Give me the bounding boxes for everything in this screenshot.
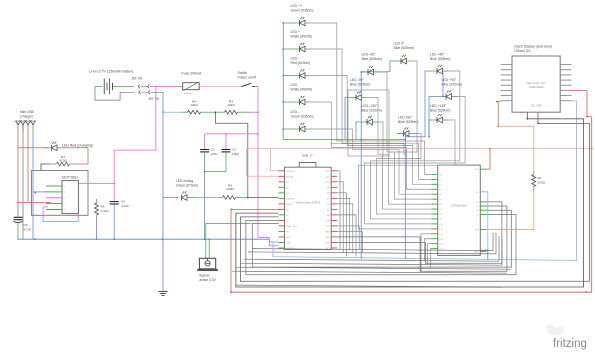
wire U1 right pin 5 down [337,198,349,249]
svg-text:USB “C”: USB “C” [302,154,314,158]
node blue -45 [360,71,362,73]
wire LED D2 to R5 [196,197,223,199]
wire USB pin3 red down [27,132,29,203]
wire OLED vcc [497,102,499,127]
wire R3 to VBATT [251,111,258,113]
wire D3 to mux C0 [310,23,432,174]
svg-text:R6: R6 [101,205,105,209]
svg-text:Blue (525nm): Blue (525nm) [362,57,382,61]
LED D8 0° [395,55,413,64]
svg-text:LED messg: LED messg [176,179,193,183]
label C2 [232,148,239,157]
node battery+ split [155,86,157,88]
wire U3 gnd stub [480,249,488,251]
wire net GND-OLED blue [273,101,577,261]
node GND rail a [34,238,36,240]
svg-text:10kΩ: 10kΩ [190,103,198,107]
LED D10 +45° [431,65,449,74]
svg-text:OLED Shield: OLED Shield [529,86,544,89]
U3 right pin labels [474,169,480,253]
wire magenta to U2 VBAT [114,87,156,184]
wire pink stub [43,206,48,208]
svg-text:C4: C4 [121,200,125,204]
svg-text:MCP73831: MCP73831 [62,176,78,180]
wire blue +90 [429,97,440,137]
wire C1 top [204,134,206,149]
svg-text:Arduino Nano ESP32: Arduino Nano ESP32 [296,201,321,205]
wire caps to GND [205,171,226,173]
wire U3 C15 drop [431,249,432,269]
svg-text:LED ++: LED ++ [291,4,303,8]
svg-text:JST XH: JST XH [148,97,160,101]
wire blue -90 [345,98,350,140]
label LED D9 [362,53,382,62]
wire buzzer minus up [208,239,210,258]
svg-text:470Ω: 470Ω [59,159,67,163]
label J1 [20,110,35,119]
svg-text:4.7uF: 4.7uF [24,228,32,232]
svg-text:LED +: LED + [291,30,301,34]
wire net S2 [252,210,511,267]
wire 3V3 rail [247,148,592,150]
wire U3 gnd to bus [487,250,489,260]
wire bus row 0 [252,233,493,251]
LED D14 +135° [431,114,449,123]
svg-text:GND: GND [474,251,479,253]
label LED D3 [291,4,314,13]
label U1 [296,201,321,205]
wire compass anode to C8 [377,134,432,215]
label LED D12 [442,78,462,87]
svg-text:CD74HC4067: CD74HC4067 [451,204,468,208]
wire R2 top stub [533,171,535,174]
U3 pin EN [480,191,486,193]
svg-text:220Ω: 220Ω [538,181,546,185]
wire orange top [498,126,534,171]
node SDA [537,123,539,125]
label C1 [211,148,218,157]
wire compass anode to C9 [371,71,460,219]
wire battery- loop [95,86,134,100]
label DS1 SCL SDA [531,105,542,108]
wire C1 bottom [204,152,206,172]
wire buzzer plus up [206,223,251,258]
wire net SDA [241,112,590,281]
LED D12 +90° [440,90,458,99]
label fritzing [553,338,587,350]
svg-text:Li-ion 3.7V 1150mAh battery: Li-ion 3.7V 1150mAh battery [89,69,133,73]
svg-text:Blue (525nm): Blue (525nm) [398,120,418,124]
wire U1 right pin 6 down [337,204,353,253]
label LED D1 [62,143,93,147]
node OLED DC [586,116,588,118]
module DS1 OLED shield [512,56,560,112]
wire GND rail blue [17,238,269,240]
label R5 [226,183,234,191]
U3 pin GND [480,250,486,252]
wire compass anode to C7 [379,122,432,209]
wire R2 bottom stub [533,187,535,191]
wire U1 right pin 2 down [337,182,343,253]
svg-text:Blue (525nm): Blue (525nm) [350,83,370,87]
label R3 [227,99,235,107]
node D3 cathode [282,22,284,24]
label R4 [190,99,198,107]
wire bus row 4 [236,267,511,269]
wire C2 top [225,134,227,149]
wire OLED D/C red [572,91,592,117]
node C4 GND [113,238,115,240]
wire R1 to feedback box [41,164,49,171]
svg-text:Blue (525nm): Blue (525nm) [430,109,450,113]
wire R5 to MCU pin [248,197,279,199]
switch SW1 power [242,83,259,86]
wire blue right group [405,71,430,137]
connector J3 JST XH row2 [139,91,163,95]
svg-text:Blue (525nm): Blue (525nm) [394,46,414,50]
node blue U2 [34,192,36,194]
node D7 cathode [282,128,284,130]
wire battery- to R4 [163,111,181,113]
node VUSB junction [17,202,19,204]
svg-text:D13/SCK: D13/SCK [286,171,296,173]
svg-text:(charger): (charger) [20,115,33,119]
svg-text:Green (535nm): Green (535nm) [291,114,314,118]
U3 pin VCC [480,168,486,170]
LED D1 Red (charging) [44,142,64,151]
svg-text:LED ~: LED ~ [291,56,301,60]
wire U3 EN [487,192,488,250]
wire magenta cap rail [205,133,258,135]
wire USB pin2 black down to GND rail [22,132,24,240]
label USB C [302,154,314,158]
svg-text:100n: 100n [211,152,218,156]
node R5 sense [247,197,249,199]
node R6 GND [96,238,98,240]
capacitor C1 100n [200,150,209,152]
fritzing watermark blob [546,325,564,336]
wire blue 180 [397,134,405,140]
wire loop around U2 [31,171,88,216]
label F1 [182,72,203,76]
U2 left pins [46,186,62,210]
node buzzer gnd [208,239,210,241]
wire fuse lead [181,85,183,87]
resistor R3 10k [215,110,251,114]
wire VUSB to C5 [17,202,19,216]
svg-text:OLED Display (dual color): OLED Display (dual color) [514,45,552,49]
svg-text:LED +45°: LED +45° [430,53,445,57]
U3 pin SIG [480,229,486,231]
wire D6 to mux C3 [310,102,432,189]
node battery- R4 [162,111,164,113]
svg-text:Blue (525nm): Blue (525nm) [442,83,462,87]
LED D7 status [283,123,310,132]
svg-text:C2: C2 [232,148,236,152]
svg-text:GND: GND [325,231,330,233]
svg-text:LED --: LED -- [291,110,301,114]
svg-text:LED -: LED - [291,83,300,87]
svg-text:220Ω: 220Ω [226,187,234,191]
ground GND1 [159,292,168,296]
label C5 [24,223,32,232]
wire blue -135 [356,122,361,140]
node OLED vcc junction [497,125,499,127]
label R2 [538,176,546,185]
svg-text:10kΩ: 10kΩ [227,103,235,107]
label LED D4 [291,30,313,39]
wire bus row 2 [244,236,499,261]
label C4 [121,200,129,209]
svg-text:Mini USB: Mini USB [20,110,35,114]
svg-text:Blue (525nm): Blue (525nm) [430,57,450,61]
wire compass anode to C10 [365,97,466,224]
LED D13 -135° [361,116,379,125]
node OLED vcc pin [496,101,498,103]
wire compass anode -45 [380,72,395,152]
wire net SCL [236,112,584,287]
wire blue 0deg [390,61,395,72]
node red wrap b [230,291,232,293]
wire OLED vcc stub [497,101,501,103]
U3 left pin labels [439,174,444,250]
svg-text:VBAT_ADC: VBAT_ADC [286,225,298,228]
wire VBAT to C4 [113,183,115,201]
label R6 [101,205,110,214]
wire blue -45 [360,72,362,140]
wire bus row 6 [236,285,502,287]
wire blue +135 [429,120,431,137]
wire battery- blue down [162,92,164,288]
node blue +90 [442,96,444,98]
wire U3 C14 drop [428,244,432,265]
svg-text:Wemos D1 mini: Wemos D1 mini [527,82,545,85]
svg-text:White (4500K): White (4500K) [291,87,313,91]
svg-text:LED -45°: LED -45° [362,53,376,57]
wire net S1 [337,206,507,271]
U3 pins S0-S3 [480,202,486,215]
wire battery+ magenta [153,85,181,87]
label LED D10 [430,53,450,62]
LED D11 -90° [350,91,368,100]
wire C2 bottom [225,152,227,172]
wire D7 to mux C4 [310,129,432,194]
svg-text:200mA: 200mA [184,92,191,95]
wire C4 to GND rail [113,204,115,239]
U1 right pin labels [325,171,331,250]
node blue bus b [404,257,406,259]
node blue rail b [404,139,406,141]
label LED D14 [430,104,450,113]
connector J1 Mini USB charger [16,121,36,132]
node 3V3 right [591,148,593,150]
svg-text:A4/SDA: A4/SDA [286,197,294,200]
svg-text:A0/DAC: A0/DAC [286,175,294,178]
label LED D7 [291,110,314,119]
node red wrap a [231,209,233,211]
svg-text:White (4500K): White (4500K) [291,34,313,38]
label LED D8 [394,42,414,51]
DS1 left pins [501,65,512,101]
wire fuse to switch [199,85,242,87]
svg-text:Blue (525nm): Blue (525nm) [362,109,382,113]
label BZ1 [200,274,217,283]
wire 3V3 to U1 row1 [271,149,279,171]
label SW1 [238,71,257,80]
wire loop compass mid [331,144,405,155]
resistor R5 220 [223,196,248,200]
node blue 136 a [428,136,430,138]
node divider mid [215,112,217,114]
svg-text:LED Red (charging): LED Red (charging) [62,143,93,147]
wire D4 to mux C1 [310,49,432,179]
wire U2 VBAT pink [79,182,115,184]
label LED D6 [291,83,313,92]
svg-text:2.2kΩ: 2.2kΩ [101,209,110,213]
node caps GND rail [204,239,206,241]
label LED D15 [398,116,418,125]
LED D4 status [283,43,310,52]
wire U1 right pin 11 down [337,231,362,252]
svg-text:Fuse 200mA: Fuse 200mA [182,72,203,76]
node caps GND [204,171,206,173]
node D6 cathode [282,101,284,103]
svg-text:C5: C5 [24,223,28,227]
label LED D2 [176,179,198,188]
node D4 cathode [282,48,284,50]
capacitor C2 10uF [222,150,231,152]
label U2 [62,176,78,180]
U3 left pins C0-C15 [432,174,438,248]
wire compass anode to C6 [368,98,432,205]
node red wrap c [585,291,587,293]
label LED D13 [362,104,382,113]
wire GND rail to U1 [269,239,278,242]
node VBATT R3 [257,111,259,113]
LED D6 status [283,96,310,105]
svg-text:LED +90°: LED +90° [442,78,457,82]
svg-text:fritzing: fritzing [553,338,587,350]
wire blue to U2 pin2 [33,191,46,193]
svg-text:Buzzer: Buzzer [200,274,211,278]
svg-text:C1: C1 [211,148,215,152]
wire R6 bottom to GND rail [96,215,98,239]
wire U1 right pin 10 down [337,226,359,250]
fuse F1 200mA [183,82,200,90]
wire U1 right pin 4 down [337,193,346,257]
buzzer BZ1 [197,258,218,271]
wire R6 top [96,199,98,203]
svg-text:RST: RST [325,237,330,239]
wire red VUSB branch [17,148,19,203]
wire caps GND down [204,172,206,240]
U1 left pin labels [286,171,298,250]
U1 left pins [279,171,285,248]
node VBAT [113,183,115,185]
svg-text:Green (535nm): Green (535nm) [291,8,314,12]
wire 3V3 to U3 VCC [487,149,491,170]
wire bus row 3 [240,239,502,265]
battery BT1 [95,78,134,94]
wire VBATT magenta down [258,86,279,245]
IC U3 CD74HC4067 [438,165,481,255]
svg-text:Green (570nm): Green (570nm) [176,184,198,188]
wire orange to SIG [487,190,534,230]
resistor R6 2.2k [95,203,99,215]
svg-text:Power on/off: Power on/off [238,76,257,80]
node U3 gnd [487,249,489,251]
svg-text:LED -90°: LED -90° [350,78,364,82]
svg-text:SCL SDA: SCL SDA [531,105,542,108]
U1 right pins [331,171,337,248]
svg-text:Red (615nm): Red (615nm) [291,61,311,65]
label J3 [148,97,160,101]
wire USB pin1 red down [17,132,19,148]
svg-text:active 3.3V: active 3.3V [200,278,217,282]
svg-text:SIG: SIG [475,230,479,232]
resistor R1 470 [49,162,75,166]
label BT1 [89,69,133,73]
label OLED [514,45,552,54]
wire USB pin4 blue down to GND rail [32,132,34,240]
wire C5 to GND rail [17,222,19,239]
wire bus row 1 [248,233,496,254]
IC U2 MCP73831 [62,181,79,214]
node D5 cathode [282,75,284,77]
wire U3 C13 drop [425,239,432,261]
wire D5 to mux C2 [310,76,432,185]
capacitor C4 4.7uF [110,202,119,204]
svg-text:VCC: VCC [474,169,479,171]
node blue rail a [360,139,362,141]
resistor R4 10k [181,110,215,114]
svg-text:LED 180°: LED 180° [398,116,413,120]
svg-text:LED -135°: LED -135° [362,104,378,108]
USB-C connector on U1 [299,163,316,174]
svg-text:EN: EN [476,192,479,194]
capacitor C5 4.7uF [14,217,23,222]
svg-text:GND: GND [286,242,291,244]
label R1 [59,155,67,163]
label LED D5 [291,56,311,65]
wire compass anode to C11 [359,120,456,229]
resistor R2 220 [532,175,536,187]
node blue bus a [360,257,362,259]
svg-text:LED 0°: LED 0° [394,42,405,46]
wire blue mid [361,71,390,73]
wire GND to LED messg [163,197,178,199]
svg-text:A5/SCL: A5/SCL [286,203,294,206]
node 3V3 4067 [489,148,491,150]
svg-text:4.7uF: 4.7uF [121,204,129,208]
LED D15 180° [397,127,415,136]
label J2 [131,77,143,81]
wire blue vert a [360,140,362,258]
wire loop compass left [348,90,389,156]
U2 pin labels [64,186,66,212]
wire U1 right pin 8 down [337,215,356,257]
LED D9 -45° [362,66,380,75]
IC U1 Arduino Nano ESP32 [285,167,332,249]
svg-text:128x64 I2C: 128x64 I2C [514,49,531,53]
svg-text:LED +135°: LED +135° [430,104,447,108]
wire net S0 [337,202,502,263]
connector J2 JST XH row1 [138,85,153,89]
wire pink loop under U2 [43,207,78,222]
wire divider sense [215,112,247,197]
wire U3 C12 drop [421,234,432,273]
wire 3V3 to U1 [247,149,279,177]
